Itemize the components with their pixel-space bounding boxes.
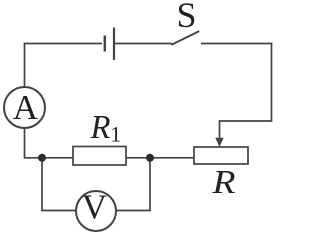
svg-text:1: 1	[110, 122, 121, 147]
node: left junction dot	[38, 154, 46, 162]
svg-text:R: R	[211, 164, 235, 201]
wire: voltmeter branch right (from voltmeter up to right node)	[116, 160, 150, 211]
rheostat wiper arrowhead	[215, 138, 223, 147]
wire: R1 right terminal to rheostat R	[126, 157, 194, 159]
svg-text:V: V	[82, 187, 107, 226]
rheostat R body	[194, 147, 248, 164]
wire: top-left from ammeter up and right to battery	[25, 44, 103, 88]
svg-text:A: A	[13, 88, 39, 127]
switch S arm (open blade)	[172, 32, 199, 45]
resistor R1 body	[73, 147, 126, 166]
wire: voltmeter branch left (from left node down to voltmeter)	[42, 160, 76, 211]
svg-text:R: R	[90, 109, 111, 146]
wire: ammeter down and right to R1 left terminal	[25, 128, 74, 158]
node: right junction dot	[146, 154, 154, 162]
ammeter A circle	[4, 87, 45, 128]
battery negative plate (short)	[104, 36, 106, 52]
wire: battery to switch contact	[114, 43, 172, 45]
voltmeter V circle	[76, 191, 116, 231]
svg-text:S: S	[177, 0, 197, 35]
battery positive plate (long)	[113, 28, 115, 61]
wire: switch to top-right corner and down right side	[201, 44, 272, 140]
